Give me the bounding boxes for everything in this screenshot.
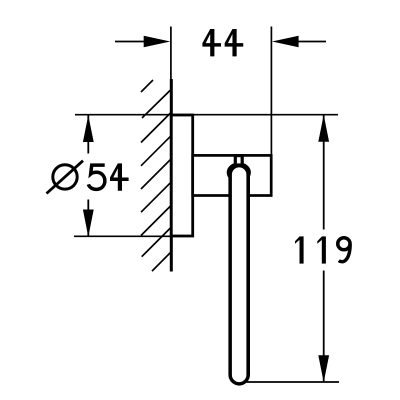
ring outer (loop outline) xyxy=(228,164,250,386)
wall xyxy=(170,79,173,272)
dimension diameter 54: vertical line segments xyxy=(87,115,89,154)
dimension 119: top arrow xyxy=(318,115,329,142)
wall hatching xyxy=(141,80,171,271)
label diameter 54: digit 5 xyxy=(88,165,105,189)
top extension line (plate top / 119 top) xyxy=(75,114,338,116)
dimension diameter 54: top arrow xyxy=(83,115,94,142)
label diameter 54: digit 4 xyxy=(110,163,129,190)
dimension 119: bottom arrow xyxy=(318,355,329,382)
dimension 44: left tail and arrow xyxy=(115,41,148,43)
extension line 44 right xyxy=(270,27,272,155)
label 119 xyxy=(295,236,350,263)
extension line 44 left (above wall) xyxy=(170,27,172,81)
bottom extension line of diameter 54 xyxy=(74,235,172,237)
dimension 44: right tail and arrow xyxy=(294,41,326,43)
mounting plate (rosette, side view) xyxy=(171,115,192,236)
label diameter 54: diameter symbol xyxy=(53,165,77,189)
ring stem (pivot pin) xyxy=(234,154,244,165)
ring inner (loop interior) xyxy=(232,167,247,382)
bottom extension line of 119 xyxy=(246,381,339,383)
bracket (holder body) xyxy=(193,155,272,195)
ring knob (thick top of ring) xyxy=(227,162,251,182)
label 44 xyxy=(202,29,221,56)
dimension diameter 54: bottom arrow xyxy=(83,210,94,237)
dimension 119: vertical line segments xyxy=(323,115,325,230)
ring stem slit xyxy=(237,157,241,163)
